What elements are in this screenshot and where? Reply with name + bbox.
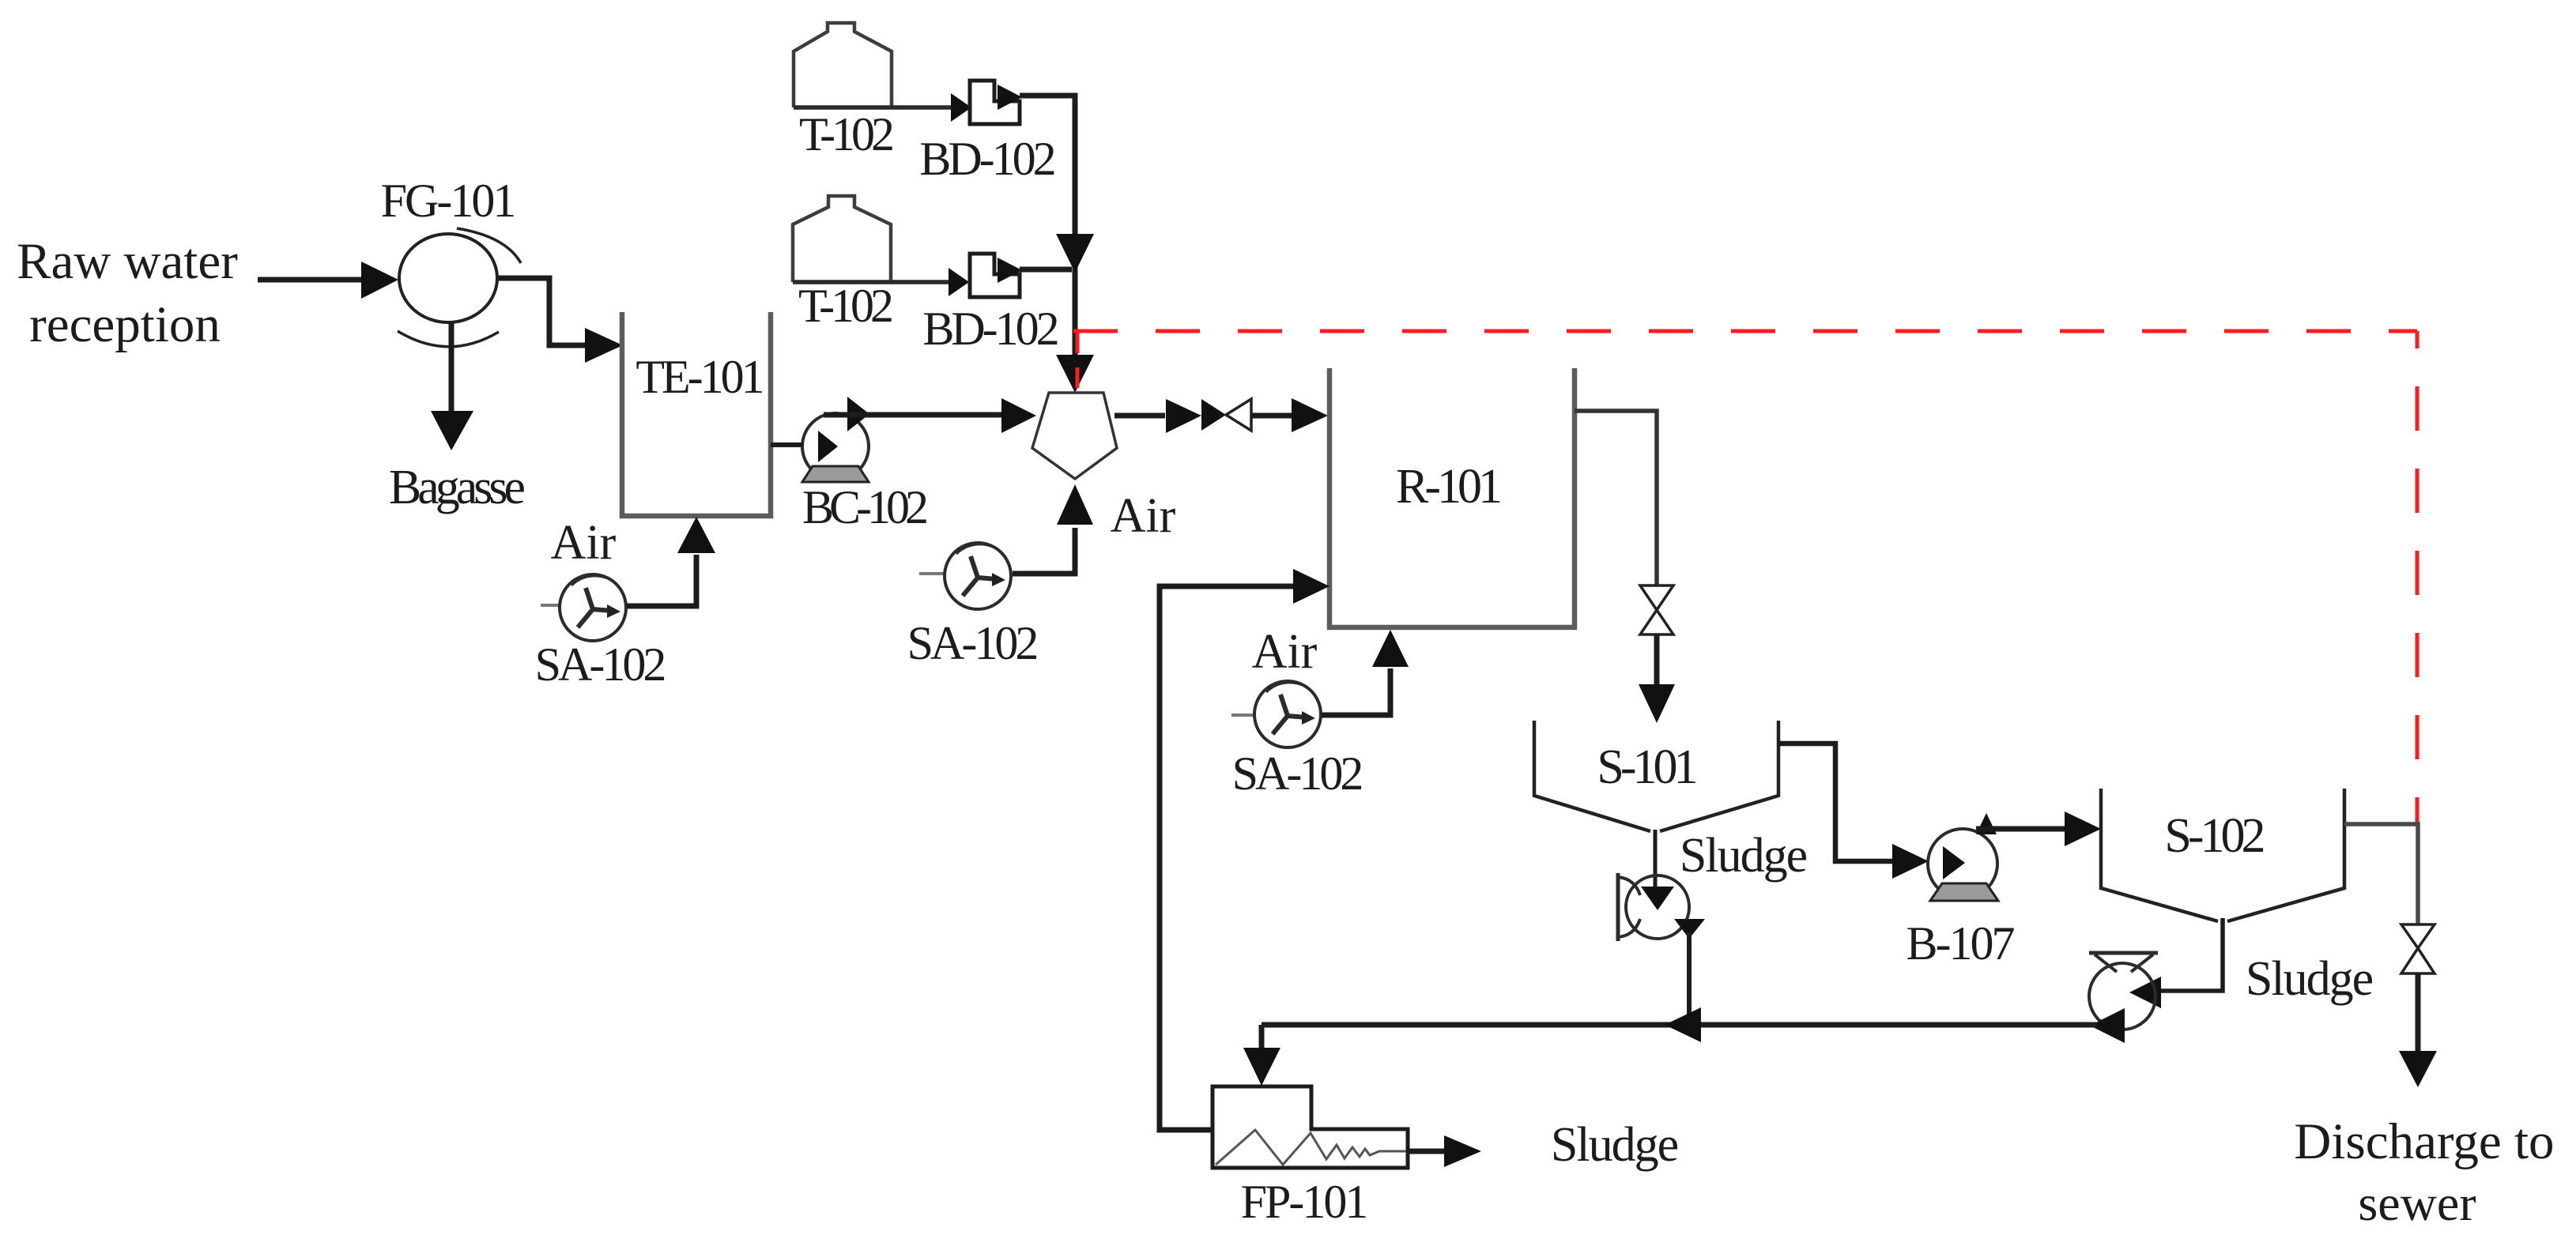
svg-text:Bagasse: Bagasse	[389, 461, 525, 514]
wire FP-101 sludge outlet	[1408, 1149, 1446, 1154]
wire return line drop into FP-101	[1259, 1025, 1265, 1051]
svg-text:Air: Air	[1111, 489, 1176, 543]
svg-text:Sludge: Sludge	[2246, 952, 2373, 1006]
junction arrow on dosing line	[1056, 234, 1094, 273]
blower SA-102 (bottom)	[1231, 681, 1321, 747]
svg-text:Air: Air	[551, 516, 617, 570]
red dashed vertical drop at discharge	[2416, 331, 2419, 823]
svg-text:SA-102: SA-102	[1232, 747, 1362, 800]
svg-text:BC-102: BC-102	[802, 481, 926, 533]
svg-text:B-107: B-107	[1907, 917, 2015, 970]
dosing pump BD-102 (upper)	[970, 81, 1020, 124]
wire air to TE-101 bottom	[627, 555, 696, 606]
wire mixer to valve	[1115, 413, 1165, 419]
tank T-102 (lower)	[793, 196, 891, 282]
pump BC-102	[802, 413, 869, 480]
svg-text:FP-101: FP-101	[1241, 1176, 1367, 1228]
svg-text:Air: Air	[1252, 625, 1318, 679]
reactor R-101	[1329, 368, 1575, 627]
svg-text:Sludge: Sludge	[1680, 829, 1807, 883]
svg-text:SA-102: SA-102	[907, 617, 1037, 669]
wire T-102 lower to BD-102	[793, 280, 952, 284]
filter press zigzag plates	[1216, 1130, 1406, 1165]
svg-text:T-102: T-102	[798, 280, 892, 332]
wire raw water feed	[258, 277, 365, 283]
mixer pentagon	[1032, 393, 1117, 479]
svg-text:Sludge: Sludge	[1551, 1118, 1678, 1172]
wire S-102 overflow to discharge	[2344, 824, 2418, 924]
svg-text:Raw water: Raw water	[17, 233, 238, 290]
valve (feed to R-101)	[1201, 399, 1226, 431]
settler S-102	[2101, 789, 2344, 921]
wire valve to sewer arrow	[2416, 973, 2421, 1052]
wire valve to S-101	[1654, 634, 1660, 687]
valve (R-101 outlet, vertical)	[1640, 585, 1673, 610]
wire BC-102 to mixer	[824, 412, 1004, 418]
wire bagasse drop	[449, 322, 454, 417]
svg-text:reception: reception	[29, 296, 221, 353]
wire FP-101 filtrate recycle to R-101	[1160, 586, 1296, 1130]
wire T-102 upper to BD-102	[794, 105, 955, 110]
wire BD-102 lower outlet	[1020, 267, 1072, 273]
wire return line (to FP-101)	[2090, 1008, 2125, 1043]
wire air to mixer bottom	[1013, 528, 1075, 574]
wire S-101 stem to sludge pump	[1654, 830, 1658, 890]
tank TE-101	[622, 312, 771, 516]
blower SA-102 (left)	[541, 574, 626, 641]
svg-text:BD-102: BD-102	[919, 133, 1054, 185]
wire FG-101 to TE-101	[498, 278, 588, 345]
red dashed riser at mixer	[1076, 333, 1080, 393]
wire S-101 overflow to B-107	[1778, 744, 1895, 861]
svg-text:S-102: S-102	[2164, 809, 2263, 863]
sludge pump (S-101 underflow)	[1618, 873, 1689, 941]
wire R-101 outlet to S-101	[1575, 411, 1657, 585]
filter press FP-101	[1213, 1086, 1408, 1168]
filter-grinder FG-101	[399, 234, 497, 322]
pump B-107	[1928, 829, 1997, 898]
sludge pump (S-102 underflow)	[2089, 953, 2158, 1030]
svg-text:FG-101: FG-101	[381, 175, 515, 227]
junction arrow on return line	[1665, 1007, 1701, 1042]
wire valve to R-101	[1251, 413, 1294, 419]
wire BD-102 upper outlet down to mixer	[1020, 96, 1075, 387]
svg-text:Discharge to: Discharge to	[2294, 1113, 2554, 1170]
svg-text:BD-102: BD-102	[922, 303, 1057, 355]
svg-text:SA-102: SA-102	[535, 638, 665, 691]
dosing pump BD-102 (lower)	[970, 254, 1020, 297]
svg-text:TE-101: TE-101	[636, 351, 762, 403]
tank T-102 (upper)	[794, 23, 892, 107]
svg-text:T-102: T-102	[799, 108, 892, 160]
settler S-101	[1534, 721, 1778, 831]
svg-text:sewer: sewer	[2358, 1175, 2476, 1231]
wire S-102 stem to sludge pump 2	[2161, 918, 2223, 991]
valve (discharge, vertical)	[2401, 924, 2435, 948]
wire air to R-101 bottom	[1322, 668, 1390, 715]
blower SA-102 (middle)	[919, 543, 1011, 609]
svg-text:R-101: R-101	[1396, 460, 1500, 514]
wire B-107 to S-102	[1976, 826, 2068, 832]
arrow into mixer top	[1056, 355, 1094, 393]
svg-text:S-101: S-101	[1597, 740, 1695, 794]
wire sludge pump discharge down to return line	[1674, 919, 1705, 939]
red dashed horizontal run	[1073, 329, 2417, 333]
